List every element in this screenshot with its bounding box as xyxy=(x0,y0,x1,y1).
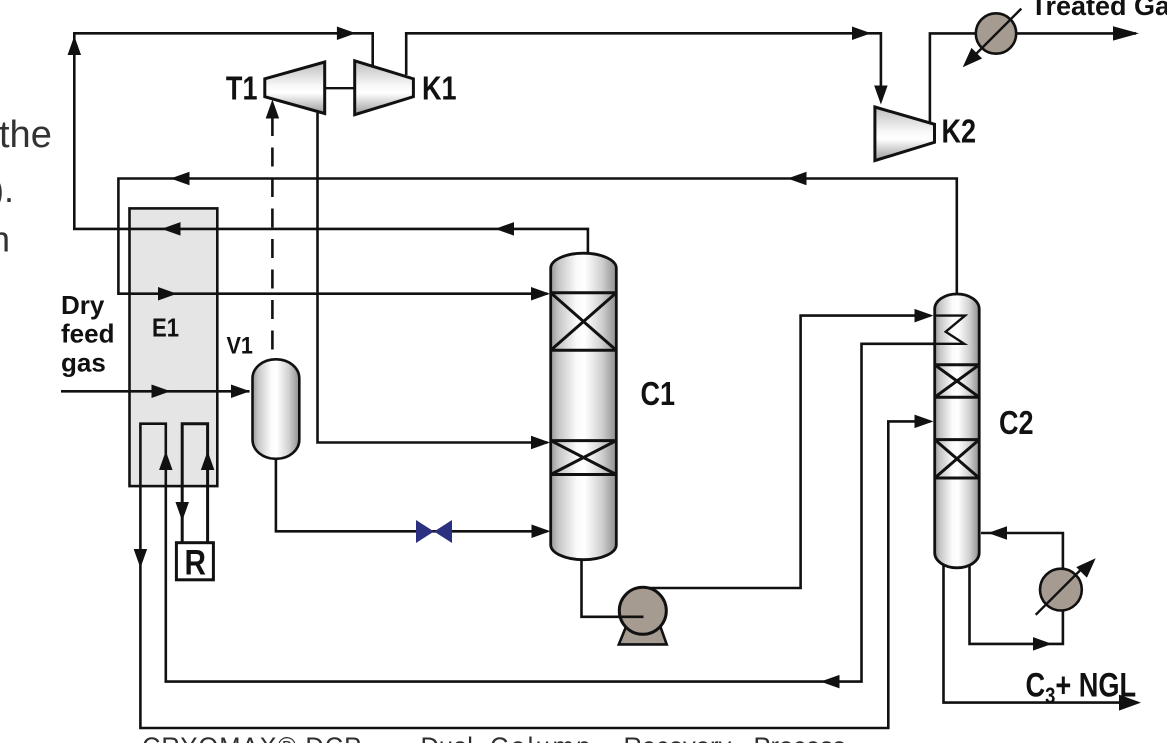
arrow left on lower cross line xyxy=(821,675,840,689)
turbine T1 xyxy=(265,62,325,114)
wire reboiler return to C2 xyxy=(981,533,1063,569)
svg-text:Dry: Dry xyxy=(61,290,105,320)
column C2 xyxy=(935,294,980,568)
wire C1 bottoms to pump xyxy=(582,556,643,617)
svg-text:Treated Gas: Treated Gas xyxy=(1031,0,1167,21)
arrow left on C2 overhead line right xyxy=(788,172,807,186)
svg-text:feed: feed xyxy=(61,319,114,349)
wire C2 side draw through E1 channel and back to C2 xyxy=(140,344,964,728)
arrow right T1 outlet into C1 xyxy=(531,436,550,450)
wire pump discharge to C2 top xyxy=(646,316,931,588)
vessel V1 xyxy=(253,359,300,459)
arrow up in E1 channel 1 xyxy=(159,451,173,470)
wire HX2 diagonal xyxy=(1036,569,1082,615)
wire C2 feed zigzag distributor xyxy=(935,316,965,344)
arrow right on K1 suction line xyxy=(337,27,356,41)
arrow up in E1 channel 2 xyxy=(201,451,215,470)
svg-text:C3+ NGL: C3+ NGL xyxy=(1026,666,1137,709)
wire pump suction inside circle xyxy=(621,615,644,618)
arrow right feed into V1 xyxy=(231,385,250,399)
arrow right in E1 on C2 recycle xyxy=(158,287,177,301)
arrow right pump line into C2 xyxy=(915,309,934,323)
pump P1 xyxy=(619,587,666,634)
compressor K2 xyxy=(875,107,935,161)
wire C2 overhead through E1 to C1 top xyxy=(118,179,956,297)
arrow right before K2 drop xyxy=(852,27,871,41)
compressor K1 xyxy=(355,61,414,115)
svg-text:).: ). xyxy=(0,169,14,210)
shaft T1-K1 xyxy=(325,87,355,89)
svg-text:C2: C2 xyxy=(999,406,1034,442)
svg-text:T1: T1 xyxy=(226,71,258,107)
column C1 packing top xyxy=(551,293,617,351)
svg-text:Dual: Dual xyxy=(421,734,473,743)
arrow right treated gas xyxy=(1113,26,1139,40)
arrow left reboiler return into C2 xyxy=(988,526,1007,540)
exchanger circle HX2 reboiler xyxy=(1040,569,1082,611)
heat exchanger E1 body xyxy=(130,208,218,486)
wire C3+ NGL product xyxy=(944,564,1138,703)
arrow down into R xyxy=(175,502,189,521)
arrow right valve line into C1 xyxy=(532,525,551,539)
svg-text:K2: K2 xyxy=(942,114,977,150)
svg-text:R: R xyxy=(184,543,205,582)
arrow diagonal HX2 xyxy=(1076,558,1095,577)
arrow down below E1 xyxy=(134,549,148,568)
wire K1 discharge to K2 suction xyxy=(406,33,881,100)
wire T1 outlet to C1 xyxy=(318,113,548,443)
arrow left on C2 overhead line xyxy=(171,172,190,186)
arrow down into K2 xyxy=(874,86,888,105)
wire C2 bottoms to reboiler xyxy=(970,564,1063,644)
arrow left on C1 overhead line right xyxy=(495,222,514,236)
arrow right feed in E1 xyxy=(152,385,171,399)
svg-text:Column: Column xyxy=(490,734,593,743)
wire C1 overhead to K1 suction xyxy=(74,33,588,256)
svg-text:CRYOMAX® DCP -: CRYOMAX® DCP - xyxy=(142,734,379,743)
JT valve xyxy=(416,520,452,543)
svg-text:Process: Process xyxy=(754,734,846,743)
svg-text:Recovery: Recovery xyxy=(624,734,732,743)
wire refrigeration loop R to E1 xyxy=(182,424,207,542)
arrow right C3+ NGL xyxy=(1119,695,1141,711)
arrow up into T1 xyxy=(266,100,280,119)
wire HX1 diagonal xyxy=(970,9,1021,60)
column C2 packing upper xyxy=(935,365,980,397)
exchanger circle HX1 xyxy=(976,13,1016,53)
svg-text:gas: gas xyxy=(61,348,106,378)
arrow left on C1 overhead line in E1 xyxy=(162,222,181,236)
svg-text:the: the xyxy=(0,114,52,156)
wire K2 discharge to treated gas xyxy=(930,33,1136,123)
svg-text:C1: C1 xyxy=(641,377,676,413)
svg-text:K1: K1 xyxy=(422,71,457,107)
column C1 packing middle xyxy=(551,441,617,475)
arrow diagonal HX1 xyxy=(963,48,982,67)
arrow right into C2 middle xyxy=(915,415,934,429)
arrow right on reboiler bottom line xyxy=(1033,637,1052,651)
zigzag redraw over column C2 xyxy=(935,316,965,344)
svg-text:V1: V1 xyxy=(227,331,254,358)
pump base xyxy=(619,626,667,645)
wire dry feed gas to V1 xyxy=(61,390,250,393)
arrow up into top-left corner xyxy=(68,36,82,55)
refrigeration package R box xyxy=(176,543,213,580)
wire V1 vapor to T1 (dashed) xyxy=(271,117,274,360)
wire V1 liquid through valve to C1 xyxy=(276,457,548,531)
column C2 packing lower xyxy=(935,440,980,478)
svg-text:E1: E1 xyxy=(152,314,179,343)
column C1 xyxy=(551,253,617,560)
arrow right into C1 top xyxy=(531,287,550,301)
svg-text:n: n xyxy=(0,219,10,260)
